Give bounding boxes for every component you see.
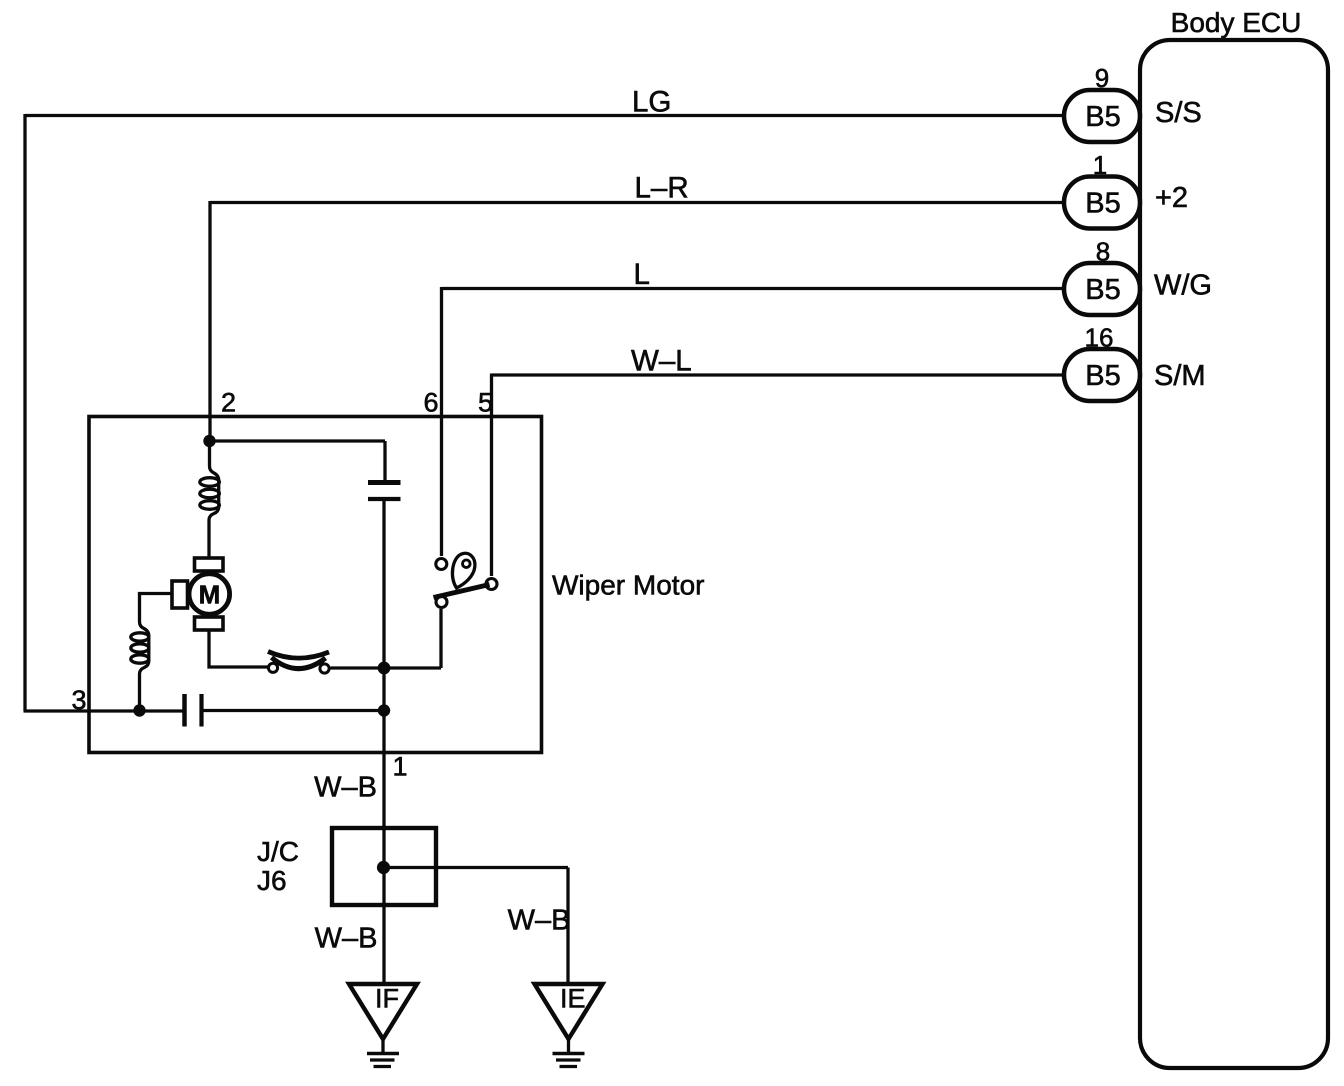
wire L-R vertical to pin 2 — [208, 201, 211, 441]
ground IE stub — [567, 1039, 570, 1052]
wire J6 branch horizontal — [384, 866, 569, 869]
inductor coil L1 spine — [209, 441, 219, 558]
wire L horizontal — [442, 287, 1065, 290]
switch lever arm — [434, 585, 490, 598]
connector B5 pin 9 oval — [1064, 90, 1140, 142]
svg-text:L–R: L–R — [635, 172, 689, 205]
capacitor C1 top plate — [368, 480, 401, 485]
motor M1 bottom brush — [195, 617, 224, 630]
wire top horizontal to capacitor — [210, 439, 386, 442]
svg-text:W/G: W/G — [1154, 270, 1212, 302]
svg-text:B5: B5 — [1085, 360, 1120, 392]
wire capacitor drop — [383, 441, 386, 480]
wire motor left lead — [140, 594, 173, 623]
svg-text:L: L — [634, 258, 650, 291]
Body ECU box — [1140, 40, 1328, 1068]
svg-text:Body ECU: Body ECU — [1171, 7, 1302, 38]
svg-text:W–B: W–B — [314, 772, 377, 804]
svg-text:9: 9 — [1095, 63, 1109, 93]
svg-text:B5: B5 — [1085, 188, 1120, 220]
ground IE bar 3 — [560, 1065, 578, 1068]
ground IF bar 2 — [370, 1058, 395, 1061]
svg-text:J6: J6 — [257, 865, 287, 896]
svg-text:Wiper Motor: Wiper Motor — [552, 570, 704, 601]
switch right contact (pin 5) — [486, 579, 497, 590]
wire pin3 horizontal into box — [24, 709, 183, 712]
capacitor C2 right plate — [199, 694, 203, 727]
wire W-L horizontal — [492, 373, 1065, 376]
commutator left contact circle — [268, 663, 277, 672]
inductor coil L2 spine — [140, 622, 149, 705]
svg-text:S/S: S/S — [1155, 97, 1202, 129]
motor M1 body circle — [189, 574, 230, 615]
svg-text:8: 8 — [1096, 237, 1110, 267]
wire J6 branch vertical to IE — [566, 868, 569, 985]
capacitor C1 bottom plate — [368, 497, 401, 501]
inductor coil L2 loops — [131, 633, 149, 641]
connector B5 pin 16 oval — [1064, 349, 1140, 401]
node junction bottom — [378, 704, 390, 716]
wire W-L vertical to pin 5 — [490, 374, 493, 577]
motor M1 top brush — [195, 558, 224, 571]
svg-text:3: 3 — [72, 685, 87, 715]
svg-text:W–B: W–B — [508, 905, 571, 937]
switch upper contact (pin 6) — [436, 559, 447, 570]
svg-text:LG: LG — [632, 86, 671, 119]
inductor coil L1 loops — [200, 478, 220, 487]
commutator sliding band lower arc — [272, 658, 326, 669]
motor M1 left brush — [172, 581, 188, 608]
ground IE bar 2 — [556, 1058, 581, 1061]
svg-text:B5: B5 — [1085, 101, 1120, 133]
svg-text:16: 16 — [1085, 323, 1114, 353]
commutator right contact circle — [320, 664, 329, 673]
node junction J6 — [377, 861, 390, 874]
wire LG horizontal — [25, 114, 1064, 117]
ground IF triangle — [349, 984, 417, 1039]
wire motor bottom lead — [209, 630, 268, 667]
wire C2 to junction — [204, 709, 385, 712]
svg-text:1: 1 — [393, 752, 408, 782]
svg-text:6: 6 — [424, 388, 439, 418]
Wiper Motor box — [89, 417, 542, 753]
ground IE triangle — [535, 984, 603, 1039]
ground IF stub — [381, 1039, 384, 1052]
connector B5 pin 8 oval — [1064, 263, 1140, 315]
svg-text:M: M — [199, 580, 221, 610]
wire capacitor down long — [382, 501, 385, 984]
svg-text:1: 1 — [1093, 150, 1107, 180]
commutator sliding band upper arc — [268, 652, 329, 659]
svg-text:5: 5 — [478, 388, 493, 418]
svg-text:B5: B5 — [1085, 274, 1120, 306]
capacitor C2 left plate — [182, 694, 187, 727]
wire L vertical to pin 6 — [440, 287, 443, 556]
svg-text:IE: IE — [560, 984, 586, 1014]
junction connector J/C J6 box — [332, 828, 436, 905]
node junction commutator/vertical — [378, 662, 391, 675]
switch cam pivot circle — [463, 560, 471, 568]
svg-text:W–L: W–L — [631, 345, 692, 378]
svg-text:+2: +2 — [1155, 182, 1188, 214]
ground IF bar 3 — [374, 1065, 392, 1068]
wire riser to switch — [439, 609, 442, 668]
svg-text:2: 2 — [221, 388, 236, 418]
ground IE bar 1 — [553, 1052, 585, 1056]
switch cam teardrop — [452, 553, 474, 588]
switch lower contact — [436, 597, 447, 608]
svg-text:W–B: W–B — [315, 923, 378, 955]
node junction pin2 top — [203, 435, 215, 447]
wire L-R horizontal — [210, 201, 1064, 204]
svg-text:S/M: S/M — [1154, 360, 1206, 392]
wire left vertical (LG to pin 3) — [23, 114, 26, 711]
svg-text:J/C: J/C — [257, 836, 299, 867]
connector B5 pin 1 oval — [1064, 177, 1140, 229]
ground IF bar 1 — [367, 1052, 399, 1056]
wire commutator to riser — [331, 666, 442, 669]
node junction pin3 — [133, 704, 145, 716]
svg-text:IF: IF — [375, 984, 399, 1014]
